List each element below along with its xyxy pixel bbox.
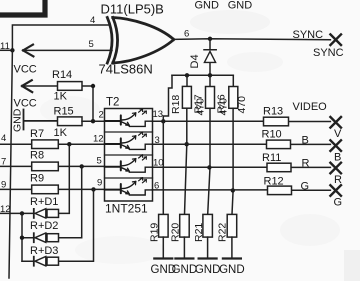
node R18 top <box>185 73 189 77</box>
diode D3 <box>33 257 35 266</box>
svg-text:R15: R15 <box>54 105 74 117</box>
svg-text:R11: R11 <box>262 152 281 164</box>
svg-text:5: 5 <box>97 156 102 167</box>
wire R7 row pin4 <box>0 143 105 145</box>
svg-text:R14: R14 <box>52 69 72 81</box>
X terminal V <box>330 117 341 128</box>
ground symbol at R15 <box>24 110 58 130</box>
thick border corner (top-left partial box) <box>0 0 45 15</box>
arrow left chevron 2 <box>22 80 32 92</box>
wire R9 row pin9 <box>0 188 105 190</box>
svg-text:R12: R12 <box>264 176 284 188</box>
svg-text:VCC: VCC <box>14 98 37 110</box>
ground bar R19 <box>154 257 172 259</box>
svg-text:GND: GND <box>219 264 245 276</box>
diode D2 <box>33 233 35 242</box>
node D4 bottom <box>208 73 212 77</box>
svg-text:9: 9 <box>1 180 6 191</box>
svg-text:13: 13 <box>153 109 164 120</box>
svg-text:SYNC: SYNC <box>293 29 324 41</box>
resistor R9 <box>32 185 59 194</box>
svg-text:470: 470 <box>236 96 248 114</box>
wire branch to D2 D3 <box>21 213 23 261</box>
wire R8 row pin7 <box>0 165 105 167</box>
svg-text:R13: R13 <box>263 106 283 118</box>
svg-text:GND: GND <box>172 264 198 276</box>
svg-text:GND: GND <box>228 0 253 12</box>
wire pin11 from left edge <box>0 49 12 51</box>
svg-text:R21: R21 <box>193 223 205 242</box>
svg-text:R19: R19 <box>149 223 161 242</box>
svg-text:2: 2 <box>99 110 104 121</box>
opto T2 box <box>105 109 153 202</box>
svg-text:470: 470 <box>195 98 207 116</box>
svg-text:6: 6 <box>184 29 189 40</box>
node R9 right <box>91 187 95 191</box>
svg-text:GND: GND <box>195 264 221 276</box>
svg-text:6: 6 <box>154 181 159 192</box>
svg-text:12: 12 <box>93 134 104 145</box>
wire pin3 row to R10 <box>153 143 331 145</box>
ground bar R22 <box>223 257 241 259</box>
resistor R21 <box>203 214 213 237</box>
X terminal B <box>330 140 341 151</box>
resistor R8 <box>32 162 59 171</box>
resistor R14 <box>58 82 83 91</box>
svg-text:74LS86N: 74LS86N <box>99 62 153 77</box>
resistor RD2 <box>47 234 59 242</box>
resistor R7 <box>32 140 59 149</box>
svg-text:GND: GND <box>12 108 24 132</box>
svg-text:4: 4 <box>1 133 6 144</box>
svg-text:R9: R9 <box>30 173 44 185</box>
svg-text:B: B <box>302 135 309 147</box>
node R17 to pin10 <box>207 165 211 169</box>
wire R+D3 row <box>22 189 94 261</box>
X terminal R <box>330 163 341 174</box>
ground bar R21 <box>199 257 217 259</box>
node pin13 <box>161 119 165 123</box>
arrow left chevron 1 <box>23 45 33 57</box>
wire XOR output pin6 <box>174 38 331 41</box>
ground bar R20 <box>175 257 193 259</box>
svg-text:9: 9 <box>97 178 102 189</box>
wire pin4 to XOR input A <box>12 25 110 50</box>
node RD1 left <box>20 211 24 215</box>
svg-text:R+D3: R+D3 <box>30 245 58 257</box>
resistor R15 <box>58 117 83 126</box>
svg-text:B: B <box>334 152 341 164</box>
diode D4 <box>204 39 216 76</box>
resistor R10 <box>267 140 291 149</box>
svg-text:470: 470 <box>218 98 230 116</box>
svg-text:R18: R18 <box>170 95 182 114</box>
wire to XOR input B <box>23 49 112 51</box>
wire R15 to T2 pin2 <box>82 120 105 122</box>
svg-text:R: R <box>302 158 310 170</box>
svg-text:R+D1: R+D1 <box>30 196 58 208</box>
svg-text:R10: R10 <box>262 129 282 141</box>
diode D1 <box>33 209 35 218</box>
svg-text:4: 4 <box>90 15 95 26</box>
ground long slanted wire <box>9 50 12 278</box>
node D4 top <box>208 37 212 41</box>
resistor RD1 <box>47 209 59 217</box>
svg-text:3: 3 <box>155 135 160 146</box>
wire pin10 row to R11 <box>153 166 331 168</box>
node R15 right <box>91 119 95 123</box>
wire R+D1 row pin12 <box>0 144 69 213</box>
svg-text:V: V <box>334 128 342 140</box>
resistor R17 <box>209 75 211 86</box>
node R18 to pin3 <box>185 142 189 146</box>
svg-text:R+D2: R+D2 <box>30 220 58 232</box>
svg-text:R: R <box>334 174 342 186</box>
svg-text:7: 7 <box>1 157 6 168</box>
svg-text:1K: 1K <box>54 127 68 139</box>
node R16 to pin6 <box>231 188 235 192</box>
svg-text:SYNC: SYNC <box>313 47 344 59</box>
svg-text:1K: 1K <box>54 91 68 103</box>
op XOR gate D11 74LS86N <box>107 18 112 64</box>
wire jog down to pin13 node <box>163 75 172 121</box>
svg-text:11: 11 <box>0 41 10 52</box>
svg-text:T2: T2 <box>106 97 119 109</box>
resistor R19 <box>159 214 169 237</box>
svg-text:1NT251: 1NT251 <box>105 202 148 216</box>
svg-text:GND: GND <box>195 0 220 12</box>
svg-text:D4: D4 <box>189 54 201 68</box>
svg-text:VCC: VCC <box>14 64 37 76</box>
resistor R12 <box>268 186 292 195</box>
svg-text:G: G <box>301 181 310 193</box>
resistor R13 <box>264 117 289 126</box>
node R8 right <box>80 164 84 168</box>
node R7 right <box>67 142 71 146</box>
svg-text:5: 5 <box>89 39 94 50</box>
svg-text:R20: R20 <box>170 223 182 242</box>
svg-text:10: 10 <box>153 158 164 169</box>
node R14 right <box>91 84 95 88</box>
wire pin13 down to R19 <box>162 121 164 214</box>
resistor R11 <box>267 163 291 172</box>
resistor R16 <box>232 75 234 86</box>
svg-text:VIDEO: VIDEO <box>293 101 328 113</box>
wire bus A (tops of R18 R17 R16) <box>172 74 233 76</box>
X terminal SYNC <box>330 34 341 45</box>
X terminal G <box>330 185 341 196</box>
resistor R22 <box>227 214 237 237</box>
resistor R20 <box>180 214 190 237</box>
wire R14 row <box>22 86 93 121</box>
wire R+D2 row <box>22 166 82 237</box>
svg-text:R7: R7 <box>30 128 44 140</box>
resistor R18 <box>186 75 188 86</box>
resistor RD3 <box>47 257 59 265</box>
wire pin6 row to R12 <box>153 189 331 191</box>
transistor Q cells of T2 <box>105 109 153 195</box>
svg-text:D11(LP5)B: D11(LP5)B <box>101 2 164 17</box>
svg-text:R22: R22 <box>217 223 229 242</box>
node junction 11 <box>10 48 14 52</box>
svg-text:12: 12 <box>0 204 11 215</box>
wire pin13 row to R13 <box>153 120 331 122</box>
svg-text:R8: R8 <box>30 149 44 161</box>
svg-text:G: G <box>334 197 343 209</box>
node RD2 left <box>20 236 24 240</box>
